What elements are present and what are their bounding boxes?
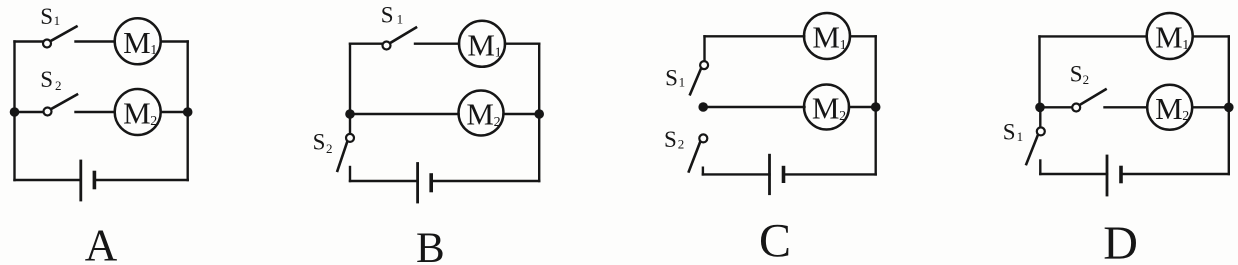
svg-text:2: 2: [55, 78, 62, 93]
circuit D: switch S1: [1026, 112, 1045, 165]
circuit C: node (left junction): [698, 102, 708, 112]
circuit A: left rail wire: [13, 42, 15, 181]
circuit A: switch S2: [44, 95, 78, 116]
circuit D: motor M2: [1147, 85, 1192, 130]
svg-text:S: S: [665, 66, 678, 91]
circuit D: label S1: [1003, 120, 1023, 145]
circuit A: middle branch wire (middle segment): [76, 111, 115, 113]
circuit A: top branch wire (middle segment): [76, 40, 115, 42]
circuit C: label S2: [664, 127, 684, 152]
svg-text:1: 1: [397, 12, 404, 27]
circuit C: bottom wire (left segment): [703, 173, 770, 175]
svg-text:2: 2: [494, 115, 501, 130]
svg-text:S: S: [1070, 62, 1083, 87]
svg-text:M: M: [123, 25, 151, 60]
circuit B: battery: [418, 164, 432, 203]
svg-text:1: 1: [1017, 129, 1024, 144]
circuit D: top branch wire (right segment): [1193, 35, 1229, 37]
svg-text:A: A: [85, 221, 118, 265]
circuit C: top branch wire (right segment): [850, 35, 876, 37]
circuit D: node (left junction): [1035, 103, 1045, 113]
circuit C: node (right junction): [871, 102, 881, 112]
svg-text:B: B: [416, 225, 445, 265]
circuit D: switch S2: [1072, 89, 1105, 111]
svg-text:1: 1: [54, 13, 61, 28]
circuit B: label S2: [313, 130, 333, 157]
circuit B: right rail wire: [538, 44, 540, 181]
circuit D: motor M1: [1147, 13, 1193, 59]
circuit D: top branch wire (left segment): [1040, 35, 1147, 37]
circuit A: node (right junction): [183, 107, 193, 117]
svg-text:M: M: [1155, 91, 1183, 126]
svg-text:M: M: [123, 96, 151, 131]
svg-text:2: 2: [678, 137, 685, 152]
circuit D: node (right junction): [1224, 103, 1234, 113]
svg-text:2: 2: [839, 109, 846, 124]
svg-text:M: M: [467, 27, 495, 62]
svg-text:M: M: [1155, 20, 1183, 55]
circuit A: top branch wire (right segment): [161, 40, 188, 42]
svg-text:S: S: [1003, 120, 1016, 145]
circuit B: motor M2: [459, 91, 504, 136]
circuit D: middle branch wire (right segment): [1192, 106, 1229, 108]
circuit D: middle branch wire (left segment): [1040, 106, 1072, 108]
svg-text:2: 2: [326, 141, 333, 156]
circuit D: left rail upper wire: [1038, 36, 1040, 107]
svg-text:S: S: [664, 127, 677, 152]
circuit C: label S1: [665, 66, 685, 91]
circuit C: bottom wire (right segment): [784, 173, 876, 175]
circuit A: bottom wire (left segment): [15, 179, 81, 181]
circuit C: top branch wire (left segment): [705, 35, 805, 37]
circuit A: top branch wire (left segment): [15, 40, 43, 42]
circuit C: left rail lower wire: [702, 168, 704, 175]
circuit B: middle branch wire (right segment): [504, 113, 540, 115]
circuit C: switch S2: [689, 134, 708, 171]
circuit A: motor M2: [115, 89, 161, 135]
circuit B: left rail wire: [349, 44, 351, 134]
circuit C: motor M1: [804, 13, 850, 59]
svg-text:2: 2: [1083, 72, 1090, 87]
circuit A: battery: [81, 161, 95, 200]
circuit B: bottom wire (left segment): [350, 180, 418, 182]
circuit A: middle branch wire (right segment): [161, 111, 188, 113]
circuit B: motor M1: [459, 21, 505, 67]
circuit C: battery: [770, 155, 784, 194]
circuit B: top branch wire (middle segment): [415, 43, 459, 45]
svg-text:1: 1: [150, 43, 157, 58]
circuit B: node (left junction): [345, 109, 355, 119]
circuit A: middle branch wire (left segment): [15, 111, 44, 113]
circuit B: left rail lower wire: [349, 167, 351, 181]
svg-text:S: S: [313, 130, 326, 155]
circuit B: middle branch wire (left segment): [350, 113, 459, 115]
circuit D: right rail wire: [1228, 36, 1230, 174]
circuit C: middle branch wire (right segment): [849, 106, 876, 108]
circuit D: battery: [1107, 156, 1121, 195]
circuit D: left rail lower wire: [1039, 161, 1041, 175]
circuit A: label S1: [40, 4, 60, 29]
circuit A: switch S1: [43, 27, 77, 48]
svg-text:1: 1: [679, 75, 686, 90]
svg-text:2: 2: [150, 114, 157, 129]
svg-text:S: S: [40, 67, 53, 92]
svg-text:M: M: [812, 91, 840, 126]
circuit D: middle branch wire (middle segment): [1105, 106, 1147, 108]
circuit C: middle branch wire (left segment): [703, 106, 804, 108]
svg-text:D: D: [1103, 217, 1138, 265]
svg-text:S: S: [381, 3, 394, 28]
circuit C: left rail upper wire: [703, 36, 705, 60]
svg-text:C: C: [759, 215, 791, 265]
svg-text:M: M: [812, 20, 840, 55]
circuit D: label S2: [1070, 62, 1089, 88]
svg-text:S: S: [40, 4, 53, 29]
circuit B: top branch wire (left segment): [350, 43, 382, 45]
circuit B: label S1: [381, 3, 403, 28]
circuit A: label S2: [40, 67, 61, 93]
circuit B: node (right junction): [534, 109, 544, 119]
circuit C: motor M2: [804, 85, 849, 130]
circuit A: bottom wire (right segment): [94, 179, 187, 181]
svg-text:1: 1: [1182, 38, 1189, 53]
circuit B: switch S1: [383, 28, 417, 50]
svg-text:2: 2: [1182, 109, 1189, 124]
circuit B: bottom wire (right segment): [431, 180, 539, 182]
circuit A: motor M1: [115, 18, 161, 64]
circuit A: node (left junction): [10, 107, 20, 117]
svg-text:1: 1: [840, 38, 847, 53]
circuit B: top branch wire (right segment): [505, 43, 539, 45]
circuit A: right rail wire: [186, 42, 188, 181]
svg-text:1: 1: [495, 46, 502, 61]
circuit C: switch S1: [690, 61, 708, 94]
circuit D: bottom wire (right segment): [1121, 173, 1229, 175]
circuit D: bottom wire (left segment): [1040, 173, 1107, 175]
svg-text:M: M: [466, 97, 494, 132]
circuit C: right rail wire: [875, 36, 877, 174]
circuit B: switch S2: [337, 134, 354, 171]
